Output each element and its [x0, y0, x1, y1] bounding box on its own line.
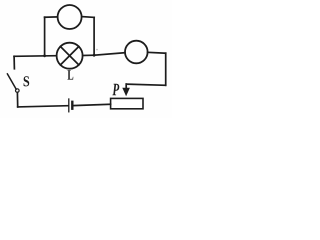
wire: left vertical down to switch — [13, 56, 15, 69]
wire: main left horizontal (battery loop to lamp) — [14, 55, 56, 58]
rheostat P wiper arrow — [122, 84, 130, 96]
node: junction dot left (meter branch / main wire) — [43, 54, 46, 57]
lamp L (circle with cross) — [57, 43, 83, 69]
meter U2 (right circle, unlabeled) — [125, 41, 148, 64]
label P — [112, 84, 119, 95]
wire: top branch right lead — [82, 16, 94, 19]
battery cell: short thick plate — [71, 102, 73, 109]
switch S blade (open) — [7, 74, 16, 89]
wire: meter branch right vertical — [93, 17, 95, 55]
wire: battery to bottom-left corner — [18, 106, 68, 107]
wire: bottom-left vertical up to switch pivot — [16, 92, 18, 107]
wire: meter branch left vertical — [44, 17, 46, 56]
label L — [68, 70, 74, 79]
wire: lamp to right meter — [94, 53, 125, 56]
node: stray speck near junction — [96, 49, 98, 51]
wire: lamp right lead — [83, 54, 94, 56]
battery cell: long thin plate — [68, 99, 70, 112]
wire: right meter to top-right corner — [148, 51, 166, 54]
label S — [24, 76, 30, 86]
switch S pivot circle — [15, 89, 19, 93]
wire: right vertical — [165, 53, 167, 85]
node: junction dot right (meter branch / main wire) — [93, 54, 96, 57]
wire: lower-right horizontal to rheostat wiper — [126, 84, 165, 85]
wire: rheostat to battery — [73, 104, 110, 105]
wire: top branch left lead — [45, 16, 58, 18]
meter U1 (upper circle, unlabeled) — [58, 5, 82, 29]
resistor P (rheostat body) — [111, 98, 143, 108]
